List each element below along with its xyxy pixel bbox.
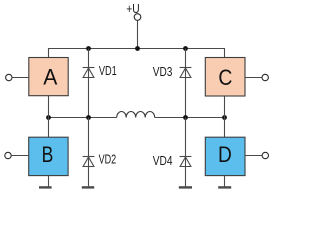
ground under B xyxy=(39,186,52,188)
block C xyxy=(205,58,245,97)
node junction mid rail C-D xyxy=(222,115,227,120)
terminal input D xyxy=(262,152,268,158)
ground under VD2 xyxy=(82,186,94,188)
node junction mid rail A-B xyxy=(46,115,51,120)
wire D to ground xyxy=(224,176,226,187)
svg-text:B: B xyxy=(42,142,54,167)
diode VD1 xyxy=(83,68,95,78)
svg-text:VD4: VD4 xyxy=(153,153,173,168)
svg-text:VD2: VD2 xyxy=(99,151,117,166)
wire D to terminal xyxy=(245,155,262,157)
inductor L xyxy=(117,112,155,118)
wire A to B xyxy=(48,96,50,138)
diode VD4 xyxy=(180,157,192,167)
wire C to D xyxy=(224,96,226,137)
terminal input C xyxy=(262,74,268,80)
node junction top rail VD3 xyxy=(183,46,188,51)
wire VD1 column xyxy=(88,49,90,118)
node junction top rail VD1 xyxy=(86,46,91,51)
wire mid rail left xyxy=(49,117,117,119)
node junction mid rail VD1-VD2 xyxy=(86,115,91,120)
terminal +U xyxy=(134,14,141,21)
wire VD4 column xyxy=(185,118,187,187)
svg-text:VD3: VD3 xyxy=(153,64,173,79)
diode VD3 xyxy=(180,68,192,78)
ground under D xyxy=(218,186,231,188)
svg-text:A: A xyxy=(43,65,57,90)
wire B to ground xyxy=(48,176,50,187)
wire C to terminal xyxy=(245,77,262,79)
diode VD2 xyxy=(83,157,95,167)
wire terminal to B xyxy=(11,155,28,157)
block D xyxy=(205,137,245,175)
wire +U to top rail xyxy=(137,20,139,48)
wire VD3 column xyxy=(185,49,187,118)
wire mid rail right xyxy=(155,117,225,119)
block A xyxy=(29,58,68,96)
node junction mid rail VD3-VD4 xyxy=(183,115,188,120)
svg-text:D: D xyxy=(218,142,232,167)
wire top rail xyxy=(49,49,225,58)
node junction top rail +U xyxy=(135,46,140,51)
block B xyxy=(29,137,68,175)
svg-text:VD1: VD1 xyxy=(99,63,117,78)
ground under VD4 xyxy=(179,186,192,188)
terminal input A xyxy=(6,74,12,80)
wire terminal to A xyxy=(12,77,29,79)
svg-text:C: C xyxy=(218,65,232,90)
wire VD2 column xyxy=(88,118,90,187)
terminal input B xyxy=(5,152,11,158)
